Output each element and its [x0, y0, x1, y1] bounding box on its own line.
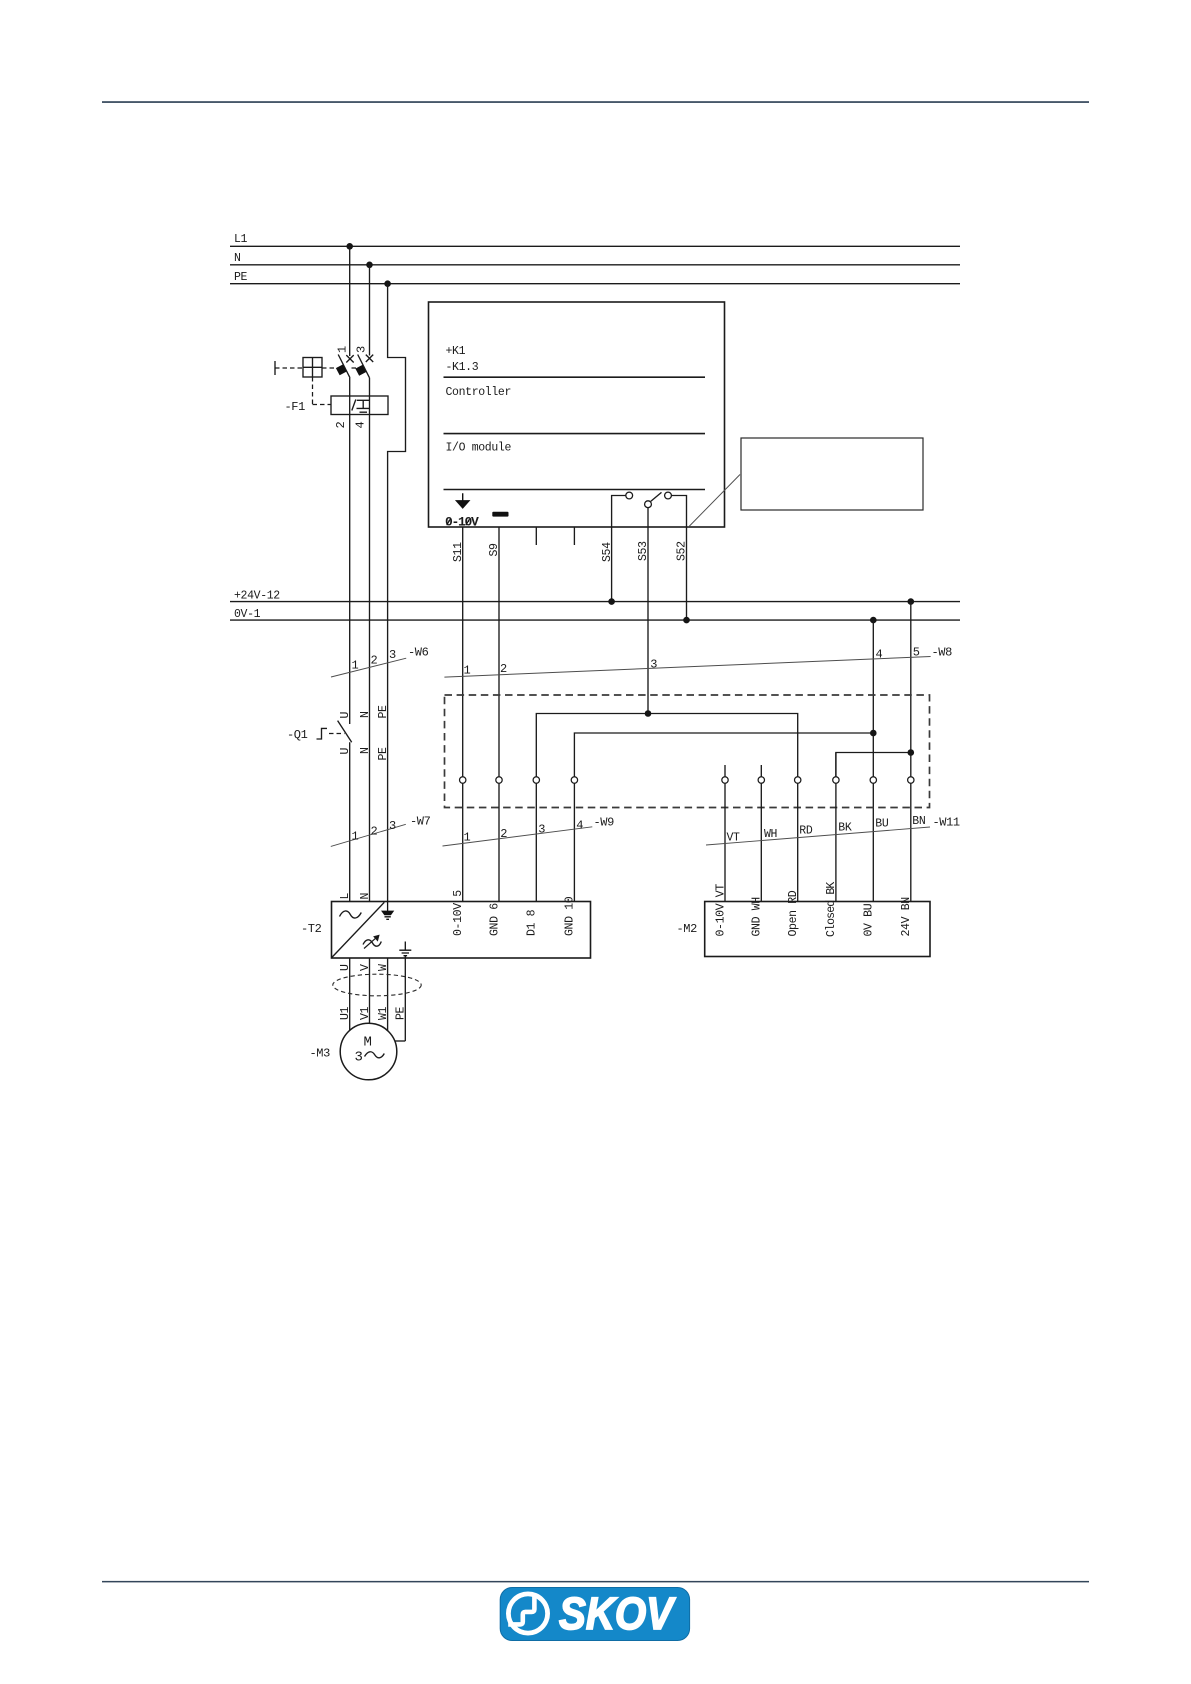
svg-text:2: 2	[500, 662, 507, 676]
T2 converter diagonal	[332, 902, 384, 957]
svg-text:BU: BU	[875, 818, 889, 831]
relay contact terminal circle right	[665, 492, 672, 499]
svg-text:BK: BK	[838, 822, 852, 835]
svg-text:+K1: +K1	[446, 345, 466, 358]
svg-text:-T2: -T2	[301, 922, 322, 936]
svg-text:WH: WH	[764, 828, 777, 841]
svg-text:3: 3	[389, 648, 396, 662]
M2 terminal label 0-10V VT	[714, 884, 727, 937]
T2 variable output sine symbol	[363, 940, 381, 946]
wire L1 rail	[230, 245, 960, 247]
svg-text:SKOV: SKOV	[559, 1588, 677, 1639]
wire W8 core5 drop	[910, 602, 912, 902]
svg-text:PE: PE	[234, 271, 248, 284]
svg-text:GND WH: GND WH	[751, 897, 764, 936]
svg-text:-W6: -W6	[408, 646, 429, 660]
wire N drop to breaker	[369, 265, 371, 356]
junction S53 on link rail	[645, 710, 652, 717]
svg-text:-W11: -W11	[933, 816, 960, 830]
cable W7 marker line	[331, 824, 406, 846]
F1 thermal slash symbol	[352, 400, 356, 411]
wire PE drop with jog around F1	[388, 284, 406, 902]
wire S11 down to connector and T2	[462, 527, 464, 902]
svg-text:PE: PE	[377, 747, 390, 761]
pin label S54	[601, 542, 614, 562]
relay common wire to S53	[647, 508, 649, 527]
svg-text:N: N	[359, 747, 372, 754]
svg-text:2: 2	[334, 422, 348, 429]
relay contact S52 side wire	[671, 496, 686, 528]
svg-text:0-10V: 0-10V	[445, 515, 479, 530]
svg-text:M: M	[364, 1035, 372, 1051]
wire 0V bus	[230, 619, 960, 621]
annotation box	[741, 438, 923, 510]
svg-text:BN: BN	[912, 815, 925, 828]
wire PE into motor	[395, 1040, 405, 1042]
svg-text:0V BU: 0V BU	[863, 903, 876, 936]
junction S54 on +24V	[608, 598, 615, 605]
relay contact terminal circle left	[626, 492, 633, 499]
T2 terminal label GND 6	[488, 903, 501, 936]
wire W9 core4 down to T2	[573, 780, 575, 902]
pin label S53	[637, 541, 650, 561]
SKOV logo circle	[506, 1592, 550, 1636]
wire WH down to M2	[760, 777, 762, 902]
relay contact S54 side wire	[612, 496, 626, 528]
svg-text:1: 1	[464, 831, 471, 845]
wire PE out of T2	[404, 956, 406, 1041]
Q1 terminal label N lower	[359, 747, 372, 754]
controller stub pin 2	[573, 527, 575, 545]
controller separator line 2	[444, 433, 706, 435]
svg-text:2: 2	[500, 827, 507, 841]
cable W6 marker line	[331, 658, 406, 677]
svg-text:1: 1	[352, 830, 359, 844]
wire W to motor	[387, 958, 389, 1031]
svg-text:+24V-12: +24V-12	[234, 589, 280, 602]
controller separator line 1	[444, 376, 706, 378]
cable W11 marker line	[706, 827, 930, 845]
svg-text:0V-1: 0V-1	[234, 608, 261, 621]
Q1 terminal label U lower	[339, 748, 352, 755]
breaker F1 pole2 release block	[355, 365, 366, 376]
terminal circle WH	[758, 777, 764, 783]
T2 terminal label GND 10	[564, 896, 577, 936]
wire RD down to M2	[797, 777, 799, 902]
Q1 terminal label PE lower	[377, 747, 390, 761]
SKOV logo plate	[500, 1588, 689, 1641]
controller stub pin 1	[535, 527, 537, 545]
terminal circle 2	[496, 777, 502, 783]
svg-text:24V BN: 24V BN	[900, 897, 913, 936]
svg-text:L1: L1	[234, 233, 248, 246]
M2 terminal label Closed BK	[825, 882, 838, 937]
SKOV logo S band	[508, 1596, 534, 1624]
stub above WH terminal	[760, 765, 762, 777]
svg-text:-W8: -W8	[932, 646, 953, 660]
T2 earth symbol at PE output	[399, 942, 411, 956]
Q1 linkage dashes	[329, 733, 345, 735]
cable W9 marker line	[443, 827, 593, 846]
svg-text:-M3: -M3	[310, 1047, 331, 1061]
breaker F1 pole2 moving arm	[358, 355, 370, 378]
wire VT down to M2	[724, 777, 726, 902]
wire S9 down to connector and T2	[498, 527, 500, 902]
wire L from F1 down to Q1	[349, 378, 351, 724]
T2 output label V	[359, 964, 372, 971]
leader line to annotation	[689, 475, 741, 528]
junction S52 on 0V	[683, 617, 690, 624]
T2 earth symbol at PE input	[382, 902, 393, 920]
svg-text:4: 4	[354, 422, 368, 429]
terminal circle 4	[571, 777, 577, 783]
svg-text:N: N	[359, 893, 372, 900]
wire 24V link rail	[836, 753, 911, 777]
svg-text:GND 10: GND 10	[564, 896, 577, 936]
SKOV logo inner disk	[511, 1596, 545, 1630]
motor lead label W1	[377, 1006, 390, 1020]
breaker F1 pole1 fixed contact X	[346, 355, 353, 362]
bottom rule	[102, 1581, 1089, 1583]
terminal circle BK	[833, 777, 839, 783]
wire W9 core3 down to T2	[535, 780, 537, 902]
F1 linkage drop to box	[313, 377, 332, 405]
M2 terminal label GND WH	[751, 897, 764, 936]
junction PE tap	[384, 280, 391, 287]
junction L1 tap	[346, 243, 353, 250]
wire L below Q1	[349, 742, 351, 901]
wire BK down to M2	[835, 753, 837, 902]
pin label S52	[676, 541, 689, 561]
wire 0V link rail	[574, 733, 873, 777]
T2 terminal label D1 8	[526, 909, 539, 936]
connector X1 dashed enclosure	[445, 695, 930, 808]
svg-text:2: 2	[371, 654, 378, 668]
relay common terminal circle	[645, 501, 652, 508]
terminal circle 1	[460, 777, 466, 783]
wire W8 core4 drop	[872, 620, 874, 901]
svg-text:U1: U1	[339, 1006, 352, 1020]
relay moving arm	[651, 492, 662, 501]
Q1 terminal label U upper	[339, 712, 352, 719]
junction W8 core5 on +24V	[908, 598, 915, 605]
wire S53 down into connector	[647, 527, 649, 714]
wire S54 to +24V bus	[611, 527, 613, 602]
svg-text:4: 4	[876, 648, 883, 662]
wire U to motor	[349, 958, 351, 1030]
wire S53 link rail	[536, 714, 797, 777]
svg-text:5: 5	[913, 646, 920, 660]
svg-text:PE: PE	[394, 1006, 407, 1020]
wire +24V bus	[230, 601, 960, 603]
svg-text:4: 4	[576, 819, 583, 833]
motor lead label V1	[359, 1006, 372, 1020]
svg-text:3: 3	[650, 658, 657, 672]
terminal circle VT	[722, 777, 728, 783]
motor sine glyph	[365, 1052, 385, 1058]
cable screen ellipse	[333, 974, 421, 996]
svg-text:3: 3	[538, 823, 545, 837]
svg-text:-M2: -M2	[677, 922, 698, 936]
junction N tap	[366, 262, 373, 269]
svg-text:Open RD: Open RD	[787, 890, 800, 936]
Q1 terminal label PE upper	[377, 705, 390, 719]
terminal circle RD	[795, 777, 801, 783]
wire L drop to breaker	[349, 246, 351, 356]
T2 terminal label L	[339, 893, 352, 900]
svg-text:3: 3	[355, 346, 369, 353]
stub above VT terminal	[724, 765, 726, 777]
svg-text:PE: PE	[377, 705, 390, 719]
svg-text:N: N	[359, 711, 372, 718]
svg-text:3: 3	[389, 819, 396, 833]
junction 24V link	[908, 749, 915, 756]
svg-text:2: 2	[371, 825, 378, 839]
controller separator line 3	[444, 489, 706, 491]
svg-text:-F1: -F1	[285, 400, 306, 414]
wire S52 to 0V bus	[686, 527, 688, 620]
svg-text:I/O module: I/O module	[446, 442, 512, 455]
svg-text:0-10V VT: 0-10V VT	[714, 884, 727, 937]
svg-text:D1 8: D1 8	[526, 909, 539, 936]
motor lead label PE	[394, 1006, 407, 1020]
svg-text:3: 3	[355, 1050, 363, 1066]
Q1 manual actuator glyph	[317, 728, 328, 739]
F1 earth-fault symbol	[357, 400, 371, 412]
junction 0V link	[870, 730, 877, 737]
wire V to motor	[369, 958, 371, 1023]
wire N rail	[230, 264, 960, 266]
svg-text:GND 6: GND 6	[488, 903, 501, 936]
breaker F1 pole1 pin label 1	[336, 346, 350, 353]
svg-text:0-10V 5: 0-10V 5	[452, 890, 465, 936]
svg-text:VT: VT	[727, 832, 741, 845]
svg-text:U: U	[339, 712, 352, 719]
terminal circle BN	[908, 777, 914, 783]
breaker F1 pole2 fixed contact X	[366, 355, 373, 362]
digital output dash symbol	[492, 512, 508, 517]
terminal circle 3	[533, 777, 539, 783]
F1 linkage dashes	[275, 367, 358, 369]
breaker F1 pole1 moving arm	[338, 355, 350, 378]
frequency converter T2 box	[332, 902, 591, 959]
T2 terminal label 0-10V 5	[452, 890, 465, 936]
svg-text:Controller: Controller	[446, 386, 512, 399]
Q1 switch arm	[338, 721, 352, 743]
breaker F1 pole2 pin label 3	[355, 346, 369, 353]
T2 output label W	[377, 964, 390, 971]
svg-text:1: 1	[464, 664, 471, 678]
M2 terminal label Open RD	[787, 890, 800, 936]
F1 linkage end tick	[274, 361, 276, 375]
svg-text:V1: V1	[359, 1006, 372, 1020]
breaker F1 pole1 release block	[336, 364, 347, 375]
svg-text:1: 1	[336, 346, 350, 353]
F1 test device inner cross	[303, 358, 322, 378]
actuator M2 box	[705, 902, 930, 957]
top rule	[102, 101, 1089, 103]
svg-text:-W9: -W9	[594, 816, 615, 830]
svg-text:-K1.3: -K1.3	[446, 361, 479, 374]
wire N from F1 down to T2	[369, 378, 371, 902]
F1 test device square	[303, 358, 322, 378]
svg-text:N: N	[234, 252, 241, 265]
M2 terminal label 0V BU	[863, 903, 876, 936]
breaker F1 body box	[331, 396, 388, 415]
svg-text:-W7: -W7	[410, 815, 431, 829]
motor M3 circle	[340, 1023, 397, 1080]
pin label S11	[452, 542, 465, 562]
Q1 terminal label N upper	[359, 711, 372, 718]
svg-text:RD: RD	[799, 825, 813, 838]
analog output arrow symbol	[457, 493, 469, 508]
cable W8 marker line	[444, 657, 930, 678]
svg-text:-Q1: -Q1	[287, 728, 308, 742]
svg-text:Closed BK: Closed BK	[825, 882, 838, 937]
svg-text:1: 1	[352, 659, 359, 673]
T2 terminal label N	[359, 893, 372, 900]
F1 pole1 pin label 2	[334, 422, 348, 429]
controller U1 box	[429, 302, 725, 527]
motor lead label U1	[339, 1006, 352, 1020]
svg-text:W1: W1	[377, 1006, 390, 1020]
terminal circle BU	[870, 777, 876, 783]
T2 output label U	[339, 964, 352, 971]
wire PE rail	[230, 283, 960, 285]
F1 pole2 pin label 4	[354, 422, 368, 429]
T2 AC sine symbol	[340, 911, 362, 918]
M2 terminal label 24V BN	[900, 897, 913, 936]
T2 output arrow	[364, 936, 379, 949]
junction W8 core4 on 0V	[870, 617, 877, 624]
pin label S9	[488, 543, 501, 557]
svg-text:L: L	[339, 893, 352, 900]
